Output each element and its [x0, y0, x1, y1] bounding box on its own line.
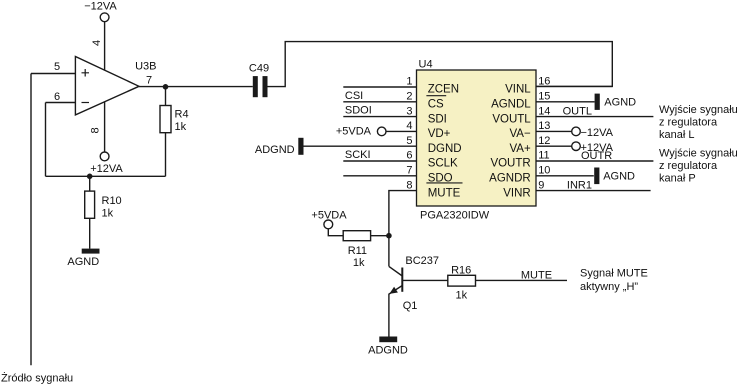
svg-text:8: 8: [90, 127, 102, 133]
terminal circle +5VDA pin 4: [377, 127, 386, 136]
resistor R11: [343, 231, 370, 241]
svg-text:+12VA: +12VA: [90, 163, 123, 175]
ground AGND bar at pin 15: [595, 94, 600, 110]
wire: pin 14 OUTL: [536, 116, 653, 118]
transistor Q1: [389, 266, 402, 336]
svg-text:U4: U4: [419, 59, 433, 71]
svg-text:ADGND: ADGND: [255, 144, 295, 156]
wire: op-amp output: [139, 86, 253, 88]
svg-text:Wyjście sygnału: Wyjście sygnału: [659, 104, 738, 116]
svg-text:aktywny „H”: aktywny „H”: [580, 281, 638, 293]
svg-text:ZCEN: ZCEN: [428, 84, 459, 96]
svg-text:kanał L: kanał L: [659, 129, 694, 141]
wire: pin 3 SDOI: [343, 116, 416, 118]
svg-text:U3B: U3B: [135, 61, 156, 73]
svg-text:SDO: SDO: [428, 173, 453, 185]
svg-text:CSI: CSI: [345, 90, 363, 102]
svg-text:+5VDA: +5VDA: [336, 126, 372, 138]
terminal circle +12VA: [100, 152, 109, 161]
wire: pin 7 stub: [343, 175, 416, 177]
wire: C49 to pin 16 top link: [268, 42, 613, 87]
wire: pin 16 stub: [536, 85, 612, 87]
junction feedback node: [87, 174, 93, 180]
wire: op-amp pin 6 input: [46, 102, 76, 104]
ground ADGND bar at pin 5: [298, 138, 303, 155]
svg-text:z regulatora: z regulatora: [659, 160, 718, 172]
svg-text:SDI: SDI: [428, 113, 447, 125]
svg-text:R11: R11: [348, 245, 367, 257]
svg-text:14: 14: [538, 105, 550, 117]
wire: pin 11 OUTR: [536, 160, 653, 162]
wire: pin 10 to AGND: [536, 175, 594, 177]
svg-text:1k: 1k: [353, 257, 365, 269]
svg-text:1k: 1k: [102, 208, 114, 220]
wire: pin 2 CSI: [343, 101, 416, 103]
svg-text:AGND: AGND: [67, 256, 99, 268]
op-amp plus sign: [82, 69, 90, 77]
svg-text:13: 13: [538, 120, 550, 132]
svg-text:kanał P: kanał P: [659, 172, 696, 184]
wire: pin 6 SCKI: [343, 160, 416, 162]
resistor R4: [160, 87, 171, 177]
svg-text:1k: 1k: [456, 289, 468, 301]
svg-text:2: 2: [406, 91, 412, 103]
svg-text:7: 7: [146, 75, 152, 87]
svg-text:OUTL: OUTL: [563, 105, 592, 117]
svg-text:AGNDL: AGNDL: [491, 99, 531, 111]
svg-text:Q1: Q1: [403, 300, 418, 312]
resistor R16: [448, 275, 476, 286]
ground ADGND bar under Q1: [379, 337, 397, 343]
svg-text:SCKI: SCKI: [345, 149, 371, 161]
wire: pin 15 to AGND: [536, 101, 595, 103]
svg-text:z regulatora: z regulatora: [659, 116, 718, 128]
svg-text:Żródło sygnału: Żródło sygnału: [1, 372, 73, 385]
svg-text:C49: C49: [249, 63, 269, 75]
svg-text:5: 5: [406, 135, 412, 147]
overline CS: [426, 95, 446, 97]
wire: pin 12 stub: [536, 145, 572, 147]
svg-text:R4: R4: [175, 108, 189, 120]
resistor R10: [85, 176, 95, 248]
svg-text:AGNDR: AGNDR: [489, 173, 531, 185]
wire: signal source vertical: [30, 74, 32, 366]
svg-text:−12VA: −12VA: [581, 127, 614, 139]
op-amp minus sign: [82, 102, 90, 104]
svg-text:AGND: AGND: [603, 171, 635, 183]
wire: op-amp pin 8 to +12VA: [104, 102, 106, 152]
svg-text:4: 4: [91, 40, 103, 46]
svg-text:3: 3: [406, 105, 412, 117]
wire: pin 13 stub: [536, 130, 572, 132]
svg-text:BC237: BC237: [405, 255, 439, 267]
svg-text:10: 10: [538, 165, 550, 177]
svg-text:SDOI: SDOI: [345, 105, 372, 117]
svg-text:VD+: VD+: [428, 128, 451, 140]
wire: R16 to MUTE: [476, 279, 568, 281]
terminal circle +12VA pin 12: [572, 142, 581, 151]
wire: op-amp pin 5 input: [31, 73, 75, 75]
svg-text:VOUTL: VOUTL: [492, 113, 531, 125]
svg-text:4: 4: [406, 120, 412, 132]
wire: feedback horizontal: [46, 175, 166, 177]
svg-text:VOUTR: VOUTR: [490, 158, 530, 170]
wire: pin 9 INR1: [536, 190, 651, 192]
wire: pin 5 stub: [304, 145, 417, 147]
svg-text:6: 6: [406, 150, 412, 162]
svg-text:11: 11: [538, 150, 549, 162]
wire: pin 1 stub: [343, 86, 416, 88]
terminal circle +5VDA at R11: [324, 220, 333, 229]
svg-text:1: 1: [406, 76, 412, 88]
ground AGND bar under R10: [82, 249, 100, 254]
svg-text:VINR: VINR: [503, 187, 530, 199]
wire: pin 8 MUTE down to Q1: [389, 191, 417, 267]
svg-text:SCLK: SCLK: [428, 158, 458, 170]
junction collector node: [386, 233, 392, 239]
svg-text:MUTE: MUTE: [521, 269, 552, 281]
svg-text:AGND: AGND: [604, 97, 636, 109]
svg-text:9: 9: [538, 179, 544, 191]
svg-text:8: 8: [406, 179, 412, 191]
junction output node: [163, 84, 169, 90]
op-amp U3B: [75, 57, 139, 115]
svg-text:−12VA: −12VA: [84, 1, 117, 13]
svg-text:+5VDA: +5VDA: [311, 210, 347, 222]
svg-text:CS: CS: [428, 99, 444, 111]
svg-text:5: 5: [54, 61, 60, 73]
svg-text:VA−: VA−: [509, 128, 530, 140]
wire: +5VDA to R11: [328, 229, 343, 236]
wire: feedback vertical: [45, 103, 47, 177]
wire: R11 to collector node: [371, 235, 389, 237]
capacitor C49: [253, 76, 268, 97]
svg-text:INR1: INR1: [567, 180, 592, 192]
svg-text:1k: 1k: [175, 121, 187, 133]
wire: op-amp pin 4 to -12VA: [104, 22, 106, 70]
terminal circle -12VA: [100, 13, 109, 22]
wire: Q1 base to R16: [402, 279, 448, 281]
terminal circle -12VA pin 13: [572, 127, 581, 136]
svg-text:VA+: VA+: [509, 143, 530, 155]
IC U4 body: [417, 70, 537, 206]
svg-text:R16: R16: [451, 265, 471, 277]
svg-text:16: 16: [538, 76, 550, 88]
svg-text:VINL: VINL: [505, 84, 531, 96]
svg-text:7: 7: [406, 165, 412, 177]
svg-text:PGA2320IDW: PGA2320IDW: [420, 210, 490, 222]
svg-text:MUTE: MUTE: [428, 187, 461, 199]
overline MUTE: [426, 182, 462, 184]
svg-text:R10: R10: [102, 195, 122, 207]
svg-text:OUTR: OUTR: [581, 150, 612, 162]
svg-text:ADGND: ADGND: [368, 345, 408, 357]
wire: pin 4 stub: [386, 130, 417, 132]
svg-text:DGND: DGND: [428, 143, 462, 155]
svg-text:Sygnał MUTE: Sygnał MUTE: [580, 267, 648, 279]
svg-text:12: 12: [538, 135, 550, 147]
svg-text:Wyjście sygnału: Wyjście sygnału: [659, 147, 738, 159]
svg-text:15: 15: [538, 91, 550, 103]
ground AGND bar at pin 10: [594, 168, 599, 185]
svg-text:6: 6: [54, 91, 60, 103]
